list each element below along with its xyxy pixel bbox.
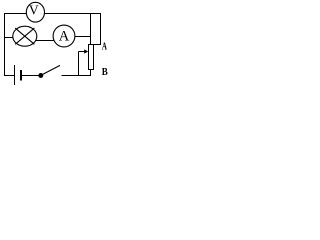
wire switch to rheostat bottom (62, 75, 92, 77)
svg-text:A: A (102, 40, 107, 52)
wire bottom left to battery (4, 75, 15, 77)
wire slider down to bottom (78, 52, 80, 76)
wire top-right corner down to rheostat (94, 13, 101, 45)
svg-text:B: B (102, 66, 108, 78)
switch S1 pivot dot (39, 74, 43, 78)
rheostat slider arrowhead (84, 49, 88, 53)
battery cell: long plate (14, 65, 16, 85)
svg-text:V: V (29, 2, 39, 17)
wire left stub to lamp (4, 37, 14, 39)
wire battery to switch (21, 75, 42, 77)
wire right vertical to rheostat top (90, 13, 92, 45)
wire ammeter to right vertical (75, 36, 92, 38)
wire left vertical (4, 13, 6, 76)
wire lamp to ammeter (36, 40, 55, 42)
lamp L1 (13, 26, 37, 46)
voltmeter V1 (26, 2, 44, 22)
svg-text:A: A (59, 29, 70, 45)
battery cell: short thick plate (20, 70, 22, 81)
rheostat slider arrow shaft (79, 51, 86, 53)
wire top horizontal (4, 13, 101, 15)
switch S1 blade (41, 65, 60, 75)
rheostat R1 body (89, 45, 94, 70)
ammeter A1 (53, 25, 75, 47)
wire rheostat bottom lead (90, 70, 92, 76)
